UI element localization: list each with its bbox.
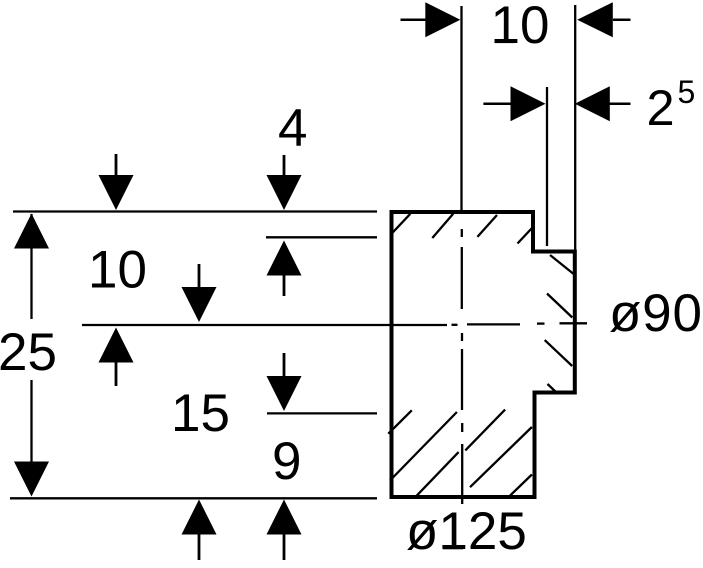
svg-text:5: 5 bbox=[678, 74, 696, 110]
svg-text:ø125: ø125 bbox=[406, 502, 527, 561]
svg-text:ø90: ø90 bbox=[609, 284, 703, 343]
svg-text:10: 10 bbox=[491, 0, 550, 55]
svg-text:9: 9 bbox=[272, 432, 301, 491]
svg-text:25: 25 bbox=[0, 323, 57, 382]
svg-text:4: 4 bbox=[278, 99, 307, 158]
svg-text:10: 10 bbox=[88, 240, 147, 299]
svg-text:2: 2 bbox=[647, 79, 675, 136]
svg-text:15: 15 bbox=[171, 384, 230, 443]
